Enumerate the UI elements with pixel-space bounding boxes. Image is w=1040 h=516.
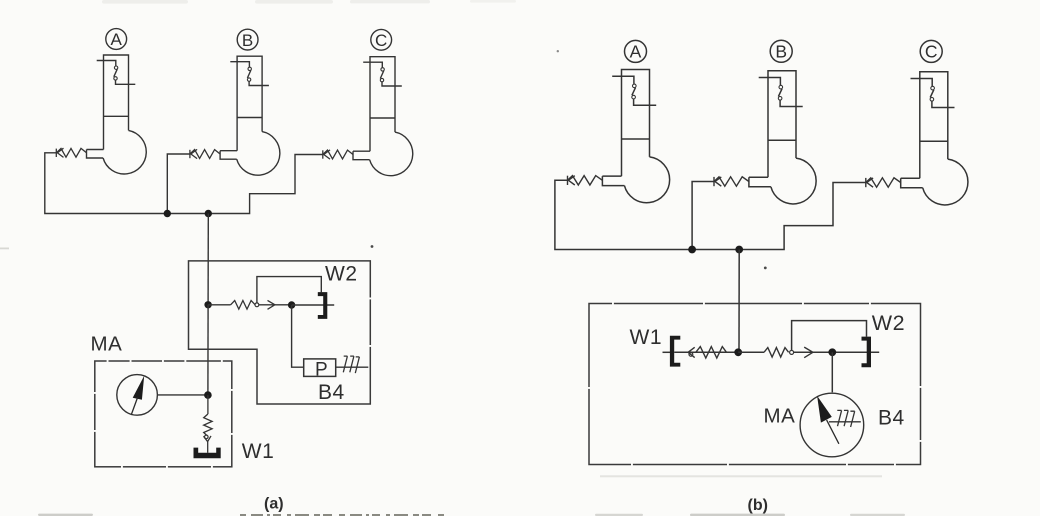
svg-text:W1: W1 <box>242 440 274 463</box>
node W2 tap (a) <box>204 301 211 308</box>
wire tube B drop (b) <box>692 182 714 250</box>
svg-text:W2: W2 <box>325 263 358 286</box>
wire bracket to rheostat W1 (b) <box>674 351 737 353</box>
dashed enclosure box W2/B4 (a) <box>189 261 371 404</box>
tube C (b) <box>901 72 968 205</box>
wire tube A to bus (a) <box>45 153 168 214</box>
wire W2 tap over-route (b) <box>792 321 867 351</box>
wire node to slider bracket (a) <box>292 304 335 306</box>
svg-text:C: C <box>925 42 938 62</box>
wire W2 node to rheostat (a) <box>208 304 231 306</box>
wire wiper to node (a) <box>259 304 292 306</box>
wire bus segment (a) <box>167 213 208 215</box>
wire tube C feed (b) <box>739 183 866 250</box>
scan artifact line under box (b) <box>600 475 882 477</box>
wire W2 node to MA node (a) <box>207 305 209 395</box>
meter MA needle (a) <box>131 376 144 415</box>
wire arrow to slider W1 (a) <box>207 442 209 453</box>
resistor of tube C (a) <box>323 150 353 159</box>
wire node down to meter (b) <box>831 352 833 392</box>
wire tube C feed (a) <box>208 155 322 214</box>
svg-text:B4: B4 <box>878 407 905 430</box>
arrow wiper direction W1 (a) <box>204 436 212 442</box>
scan gap ticks on dashed boxes <box>93 298 922 469</box>
svg-text:B: B <box>242 31 253 50</box>
wiper contact circle W1 (b) <box>689 353 693 357</box>
svg-text:(a): (a) <box>264 496 284 513</box>
node junction dot 1 (a) <box>164 210 171 217</box>
scan mark left margin <box>0 248 9 250</box>
brush element B4 (a) <box>343 356 359 373</box>
wire node to rheostat W2 (b) <box>738 351 764 353</box>
wire stub left of W1 bracket (b) <box>663 351 671 353</box>
svg-text:(b): (b) <box>748 497 768 514</box>
wire W2 tap over-route (a) <box>257 277 321 303</box>
scan smudges bottom edge <box>38 514 905 516</box>
slider bracket W2 (a) <box>318 292 328 319</box>
resistor of tube A (b) <box>568 176 603 185</box>
wire wiper to slider bracket W2 (b) <box>794 351 880 353</box>
svg-text:A: A <box>111 30 123 49</box>
arrow wiper direction W2 (b) <box>804 347 813 358</box>
tube C (a) <box>353 57 413 176</box>
svg-text:MA: MA <box>764 404 796 427</box>
speck left of tube A (b) <box>557 50 559 52</box>
slider bracket W1 (a) <box>194 448 221 459</box>
wire main drop to box (b) <box>738 250 740 353</box>
slider bracket W2 (b) <box>862 337 872 368</box>
node junction dot 2 (b) <box>735 246 743 254</box>
label B (a) <box>237 29 258 50</box>
tube A (a) <box>87 55 147 174</box>
node junction dot 2 (a) <box>205 210 212 217</box>
meter MA circle (a) <box>117 375 158 416</box>
rheostat W2 winding (b) <box>764 348 789 358</box>
wire tube A to bus (b) <box>555 180 692 249</box>
resistor of tube B (a) <box>190 149 220 158</box>
resistor of tube A (a) <box>56 148 86 157</box>
rheostat W1 winding vertical (a) <box>204 395 212 436</box>
arrow wiper direction W2 (a) <box>268 300 275 309</box>
enclosure box (b) <box>589 304 921 465</box>
rheostat W1 winding (b) <box>696 347 727 358</box>
label C (b) <box>920 40 942 62</box>
rheostat W2 winding (a) <box>231 301 256 310</box>
enclosure box MA (a) <box>95 361 232 467</box>
scan smudges top edge <box>102 0 516 4</box>
wire bus segment (b) <box>692 249 739 251</box>
brush element B4 (b) <box>829 410 861 427</box>
tube B (a) <box>220 56 280 175</box>
wire meter to node (a) <box>157 394 208 396</box>
wiper contact circle W1 (a) <box>205 435 209 439</box>
svg-text:W2: W2 <box>872 311 905 335</box>
label A (b) <box>625 40 647 62</box>
resistor of tube C (b) <box>866 178 901 187</box>
svg-text:P: P <box>315 360 328 381</box>
node MA junction (a) <box>204 391 212 399</box>
meter MA needle (b) <box>817 396 839 444</box>
svg-text:A: A <box>630 42 642 62</box>
wiper contact circle W2 (b) <box>790 350 794 354</box>
wire node down to B4 (a) <box>292 305 304 367</box>
meter MA circle (b) <box>800 393 864 457</box>
node junction dot 1 (b) <box>688 246 696 254</box>
speck right of bus (b) <box>764 267 767 270</box>
svg-text:C: C <box>375 31 387 50</box>
svg-text:MA: MA <box>91 332 123 355</box>
label A (a) <box>106 29 127 50</box>
slider bracket W1 (b) <box>670 336 680 367</box>
svg-text:W1: W1 <box>630 326 663 349</box>
wire main drop bus to W2 node (a) <box>207 214 209 305</box>
speck near W2 box (a) <box>371 245 374 248</box>
resistor of tube B (b) <box>714 177 749 186</box>
node W2 output (b) <box>828 348 836 356</box>
node W2 output (a) <box>288 301 295 308</box>
svg-text:B4: B4 <box>318 381 345 404</box>
label C (a) <box>371 29 392 50</box>
tube A (b) <box>602 70 669 203</box>
wire tube B drop (a) <box>167 154 190 214</box>
wire B4 to brush (a) <box>336 366 369 368</box>
component B4 box with P (a) <box>304 359 336 381</box>
svg-text:B: B <box>775 42 787 62</box>
tube B (b) <box>749 71 816 204</box>
label B (b) <box>770 40 792 62</box>
wiper contact circle W2 (a) <box>255 303 259 307</box>
arrow wiper direction W1 (b) <box>688 347 695 357</box>
node W1 junction (b) <box>734 348 742 356</box>
